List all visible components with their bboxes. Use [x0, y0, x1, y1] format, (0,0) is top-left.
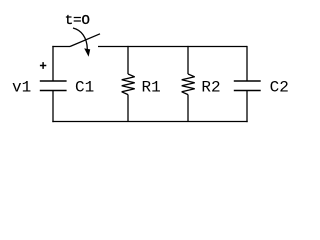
svg-text:t=O: t=O — [65, 13, 90, 29]
wire top-left stub — [52, 46, 70, 48]
resistor R2 — [182, 74, 195, 95]
switch closing arc — [73, 28, 87, 49]
wire bottom — [52, 121, 247, 123]
wire C1 bottom lead — [52, 91, 54, 123]
wire R1 bottom lead — [127, 95, 129, 122]
wire R2 top lead — [187, 46, 189, 74]
wire C2 bottom lead — [246, 91, 248, 123]
wire left vertical (C1 top lead) — [52, 46, 54, 81]
svg-text:R1: R1 — [142, 78, 161, 96]
svg-text:v1: v1 — [12, 78, 31, 96]
svg-text:R2: R2 — [201, 78, 220, 96]
wire top (switch to right corner) — [98, 46, 247, 48]
wire C2 top lead — [246, 46, 248, 81]
svg-text:C2: C2 — [270, 78, 289, 96]
plus polarity mark — [40, 62, 46, 69]
switch S1 blade — [70, 34, 100, 47]
capacitor C1 — [40, 81, 67, 91]
wire R1 top lead — [127, 46, 129, 74]
resistor R1 — [122, 74, 135, 95]
svg-text:C1: C1 — [75, 78, 94, 96]
wire R2 bottom lead — [187, 95, 189, 122]
switch arrowhead — [84, 48, 90, 56]
capacitor C2 — [234, 81, 261, 91]
